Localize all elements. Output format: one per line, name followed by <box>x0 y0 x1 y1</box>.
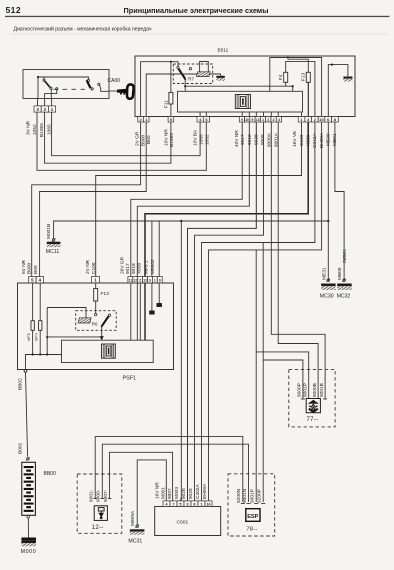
12 box wire stubs <box>94 474 96 499</box>
svg-text:B002: B002 <box>18 442 24 454</box>
svg-text:4: 4 <box>278 118 280 122</box>
12 box component icon <box>94 506 107 521</box>
wire C100 (B511 right pin1 to PSF1 pin1) <box>96 122 302 277</box>
wire B900 (B511 pin2 to PSF1 pin5) <box>32 122 141 277</box>
wire pin2 to relay top <box>141 62 178 117</box>
wire C042A (B511 right pin2 to C001 pin1) <box>202 122 315 501</box>
svg-text:R7: R7 <box>188 77 194 82</box>
svg-text:9017: 9017 <box>240 134 246 145</box>
node bus at MC30 <box>327 220 329 222</box>
svg-text:9001N: 9001N <box>242 488 248 503</box>
svg-text:9029: 9029 <box>188 488 194 499</box>
fuse MF5 <box>32 283 34 321</box>
fuse F13 PSF1 <box>95 283 97 289</box>
svg-text:9001B: 9001B <box>319 383 325 397</box>
wire pin10 loop into inner block <box>270 58 322 117</box>
svg-text:9: 9 <box>159 279 161 283</box>
svg-text:2V NR: 2V NR <box>85 259 91 274</box>
B511 pins 4 6 <box>197 117 203 123</box>
PSF1 pin wires into inner block <box>131 283 141 340</box>
svg-text:Принципиальные электрические с: Принципиальные электрические схемы <box>124 6 269 15</box>
svg-text:BB02: BB02 <box>18 378 24 390</box>
svg-text:ESP: ESP <box>247 514 258 520</box>
B511 inner connector block <box>178 91 303 112</box>
battery BB00 <box>22 462 36 515</box>
svg-text:9000B: 9000B <box>312 383 318 397</box>
svg-text:MF4: MF4 <box>34 332 39 341</box>
svg-text:9200N: 9200N <box>236 488 242 503</box>
wire 9001A (B511 to wheel sensor box) <box>278 122 318 399</box>
wire battery to ground <box>27 518 29 538</box>
PSF1 pins right group <box>128 277 133 283</box>
svg-text:MC11: MC11 <box>46 249 60 255</box>
svg-text:MB09: MB09 <box>337 267 343 280</box>
relay R7 second contact <box>189 68 191 70</box>
B511 pin 5 <box>168 117 174 123</box>
svg-text:77--: 77-- <box>307 417 319 423</box>
C001 pin stub alignment wires <box>180 497 183 501</box>
relay R7 dashed enclosure <box>173 64 212 84</box>
svg-text:10: 10 <box>319 117 324 122</box>
wire to battery <box>26 372 28 457</box>
faint rule under subtitle <box>10 33 388 36</box>
wire 9000P branch (to 77 box and ESP) <box>263 243 303 400</box>
svg-text:12: 12 <box>143 279 147 283</box>
svg-text:16V VE: 16V VE <box>292 131 298 147</box>
svg-text:MC32: MC32 <box>337 294 351 300</box>
ESP icon <box>246 509 260 522</box>
svg-text:9017: 9017 <box>125 263 131 274</box>
svg-text:512: 512 <box>6 5 22 15</box>
wire 9305 (B511 to C001 pin8) <box>195 122 264 501</box>
svg-text:F11: F11 <box>163 100 169 108</box>
B511 inner block stub wires to pins <box>200 112 301 117</box>
wire 9000- (12 box to ESP) <box>102 444 248 502</box>
svg-text:F4: F4 <box>278 74 284 80</box>
wire net B1065 (CA00 pin2 to B511 pin5) <box>45 112 171 163</box>
ESP unit dashed box <box>228 474 275 536</box>
coil feed wire <box>47 308 86 318</box>
svg-text:9: 9 <box>149 279 151 283</box>
wire M001 (C001 pin4 to MC31) <box>137 460 166 525</box>
C001 pin row <box>163 501 170 507</box>
relay R7 coil bracket wire <box>200 62 209 72</box>
wire 9007- (12 box to C001 pin7) <box>110 452 173 501</box>
svg-text:9200P: 9200P <box>257 489 263 503</box>
bus branch to PSF1 stub A <box>151 221 153 277</box>
svg-text:9007: 9007 <box>167 488 173 499</box>
svg-text:2: 2 <box>139 279 141 283</box>
svg-text:1065: 1065 <box>198 134 204 145</box>
svg-text:X909: X909 <box>137 262 143 274</box>
ground internal right B511 <box>343 77 352 79</box>
svg-text:9008: 9008 <box>260 134 266 145</box>
PSF1 pins 5 4 <box>29 277 36 283</box>
PSF1 inner connector block <box>62 340 154 362</box>
svg-text:1052: 1052 <box>205 134 211 145</box>
svg-text:3V NR: 3V NR <box>26 120 32 135</box>
svg-text:11: 11 <box>129 279 133 283</box>
header rule <box>5 16 390 17</box>
fuse MF4 <box>39 283 41 321</box>
wire pins6/8 to internal ground right <box>328 65 348 117</box>
wire net 1052 (CA00 pin3 to B511 pin6) <box>37 112 206 170</box>
wire 9018 (B511 mid pin to PSF1 pin12) <box>137 122 249 277</box>
B511 pins right group <box>298 117 305 123</box>
wire EH09A (B511 right pin10 to C001 pin16) <box>209 122 322 501</box>
svg-text:2: 2 <box>273 118 275 122</box>
svg-text:7: 7 <box>172 501 174 506</box>
mechanical link (dashed) <box>54 88 86 90</box>
svg-text:PSF1: PSF1 <box>123 376 136 382</box>
relay R6 dashed enclosure PSF1 <box>76 311 117 331</box>
svg-text:M003: M003 <box>174 487 180 499</box>
svg-text:6V NR: 6V NR <box>21 259 27 274</box>
svg-text:9: 9 <box>252 118 254 122</box>
pins 3 2 1 of switch box <box>37 99 39 106</box>
fuse F13 top-right B511 <box>288 56 308 72</box>
wire 9017 (B511 mid pin to PSF1 pin11) <box>131 122 242 277</box>
svg-text:M001B: M001B <box>46 224 52 239</box>
svg-text:C100: C100 <box>91 262 97 274</box>
relay box B511 outline <box>135 56 355 117</box>
svg-text:9001P: 9001P <box>302 383 308 397</box>
svg-text:10: 10 <box>245 118 249 122</box>
svg-text:F13: F13 <box>101 291 110 297</box>
77 box wire stub ticks <box>301 398 305 400</box>
PSF1 pin 1 <box>92 277 100 283</box>
svg-text:9007-: 9007- <box>103 489 109 502</box>
svg-text:M0002: M0002 <box>150 259 156 274</box>
svg-text:9001P: 9001P <box>250 489 256 503</box>
svg-text:MF5 1: MF5 1 <box>143 260 149 274</box>
wire pin1 to coil left <box>146 74 197 117</box>
svg-text:2V GR: 2V GR <box>135 131 141 146</box>
switch S1 (left contact set) <box>43 77 58 99</box>
stub terminators inside PSF1 <box>151 283 153 311</box>
77 box sensor icon <box>306 399 320 413</box>
bus branch to PSF1 stub B <box>158 221 160 277</box>
wheel sensor dashed box 77 <box>289 369 335 427</box>
wire coil right to internal ground <box>210 74 221 76</box>
svg-text:MC30: MC30 <box>320 294 334 300</box>
svg-text:Диагностический разъем - механ: Диагностический разъем - механическая ко… <box>14 26 152 33</box>
ESP wire stub ticks <box>241 503 245 505</box>
wire 9000A (B511 to wheel sensor box) <box>271 122 325 399</box>
svg-text:F13: F13 <box>300 72 306 81</box>
svg-text:10V BA: 10V BA <box>193 129 199 146</box>
battery bottom terminal <box>27 515 30 518</box>
connector BB02 at PSF1 <box>24 370 27 373</box>
svg-text:3: 3 <box>267 118 269 122</box>
svg-text:26V GR: 26V GR <box>119 256 125 274</box>
wire X909 thick (B511 right pin3 to PSF1) <box>145 122 308 277</box>
connector at battery <box>27 458 30 461</box>
svg-text:CA00: CA00 <box>108 78 121 84</box>
connector module symbol inside PSF1 <box>102 344 116 358</box>
svg-text:1: 1 <box>262 118 264 122</box>
wire 9302 (B511 to C001 pin3) <box>188 122 257 501</box>
svg-text:1: 1 <box>154 279 156 283</box>
svg-text:16V NR: 16V NR <box>155 482 161 499</box>
svg-text:B90: B90 <box>33 265 39 274</box>
fuse F11 <box>170 62 172 93</box>
svg-text:B60: B60 <box>146 135 152 144</box>
svg-text:13: 13 <box>256 118 260 122</box>
node feed junction <box>37 76 39 78</box>
B511 pins mid group <box>239 117 244 123</box>
supply bus inside PSF1 <box>26 355 62 370</box>
svg-text:40V NR: 40V NR <box>234 130 240 147</box>
connector module symbol inside B511 <box>235 95 250 109</box>
svg-text:B511: B511 <box>218 47 229 53</box>
wire internal feed <box>38 77 89 99</box>
wire 9001P branch (to 77 box and ESP) <box>256 250 309 399</box>
fuse box PSF1 outline <box>18 283 174 370</box>
diagnostic switch box outline <box>23 70 109 99</box>
wire MB01 (B511 pin8 to MC32) <box>335 122 344 281</box>
node F11 top <box>170 61 172 63</box>
wire 9001- (12 box to ESP) <box>95 436 243 502</box>
wire B60 (B511 pin1 to PSF1 pin4) <box>40 122 147 277</box>
svg-text:9018: 9018 <box>247 134 253 145</box>
svg-text:B900: B900 <box>140 134 146 146</box>
wire M003 ground branch to C001 pin5 <box>180 221 182 501</box>
svg-text:78--: 78-- <box>246 527 257 533</box>
wire relay arm to inner block with bus <box>184 79 186 91</box>
wire net 1065 (CA00 pin1 to B511 pin4) <box>52 112 201 155</box>
svg-text:EH09A: EH09A <box>202 483 208 499</box>
relay R6 switch arm <box>95 301 97 313</box>
svg-text:9001-: 9001- <box>89 489 95 502</box>
svg-text:9028: 9028 <box>181 488 187 499</box>
svg-text:R6: R6 <box>92 322 98 327</box>
svg-text:M000: M000 <box>21 549 37 555</box>
wire ME30 (B511 pin6 to MC30) <box>327 122 329 281</box>
svg-text:9000P: 9000P <box>297 383 303 397</box>
svg-text:BB00: BB00 <box>44 471 56 477</box>
svg-text:9: 9 <box>241 118 243 122</box>
ECU connector C001 <box>155 507 221 536</box>
svg-text:9018: 9018 <box>131 263 137 274</box>
svg-text:12--: 12-- <box>92 525 104 531</box>
svg-text:/MB01: /MB01 <box>342 249 348 263</box>
switch S2 (right contact set) <box>87 79 109 91</box>
ground internal left B511 <box>216 76 225 78</box>
relay R7 coil <box>196 72 210 77</box>
svg-text:10V NR: 10V NR <box>163 129 169 146</box>
relay R6 coil <box>78 318 91 323</box>
svg-text:9000-: 9000- <box>96 489 102 502</box>
fuse F4 <box>285 82 287 86</box>
node bus branch C001 <box>180 220 182 222</box>
svg-text:ME31: ME31 <box>321 267 327 280</box>
svg-text:B900: B900 <box>27 262 33 274</box>
B511 pins 2 1 <box>138 117 144 123</box>
wire coil branch horizontal <box>47 336 101 338</box>
wire arm to connector with arrow <box>101 326 103 340</box>
relay R7 switch arm <box>177 66 179 68</box>
svg-text:MC31: MC31 <box>128 539 142 545</box>
svg-text:MF5: MF5 <box>26 333 31 341</box>
svg-text:12: 12 <box>133 279 137 283</box>
svg-text:B1065: B1065 <box>169 133 175 147</box>
svg-text:M001: M001 <box>160 487 166 499</box>
svg-text:M809A: M809A <box>130 510 136 526</box>
svg-text:C001: C001 <box>177 519 189 525</box>
diagnostic socket dashed box 12 <box>77 474 122 533</box>
ground bus wire M0002 <box>54 221 329 239</box>
ground M000 <box>21 538 36 541</box>
svg-text:C402A: C402A <box>195 484 201 499</box>
